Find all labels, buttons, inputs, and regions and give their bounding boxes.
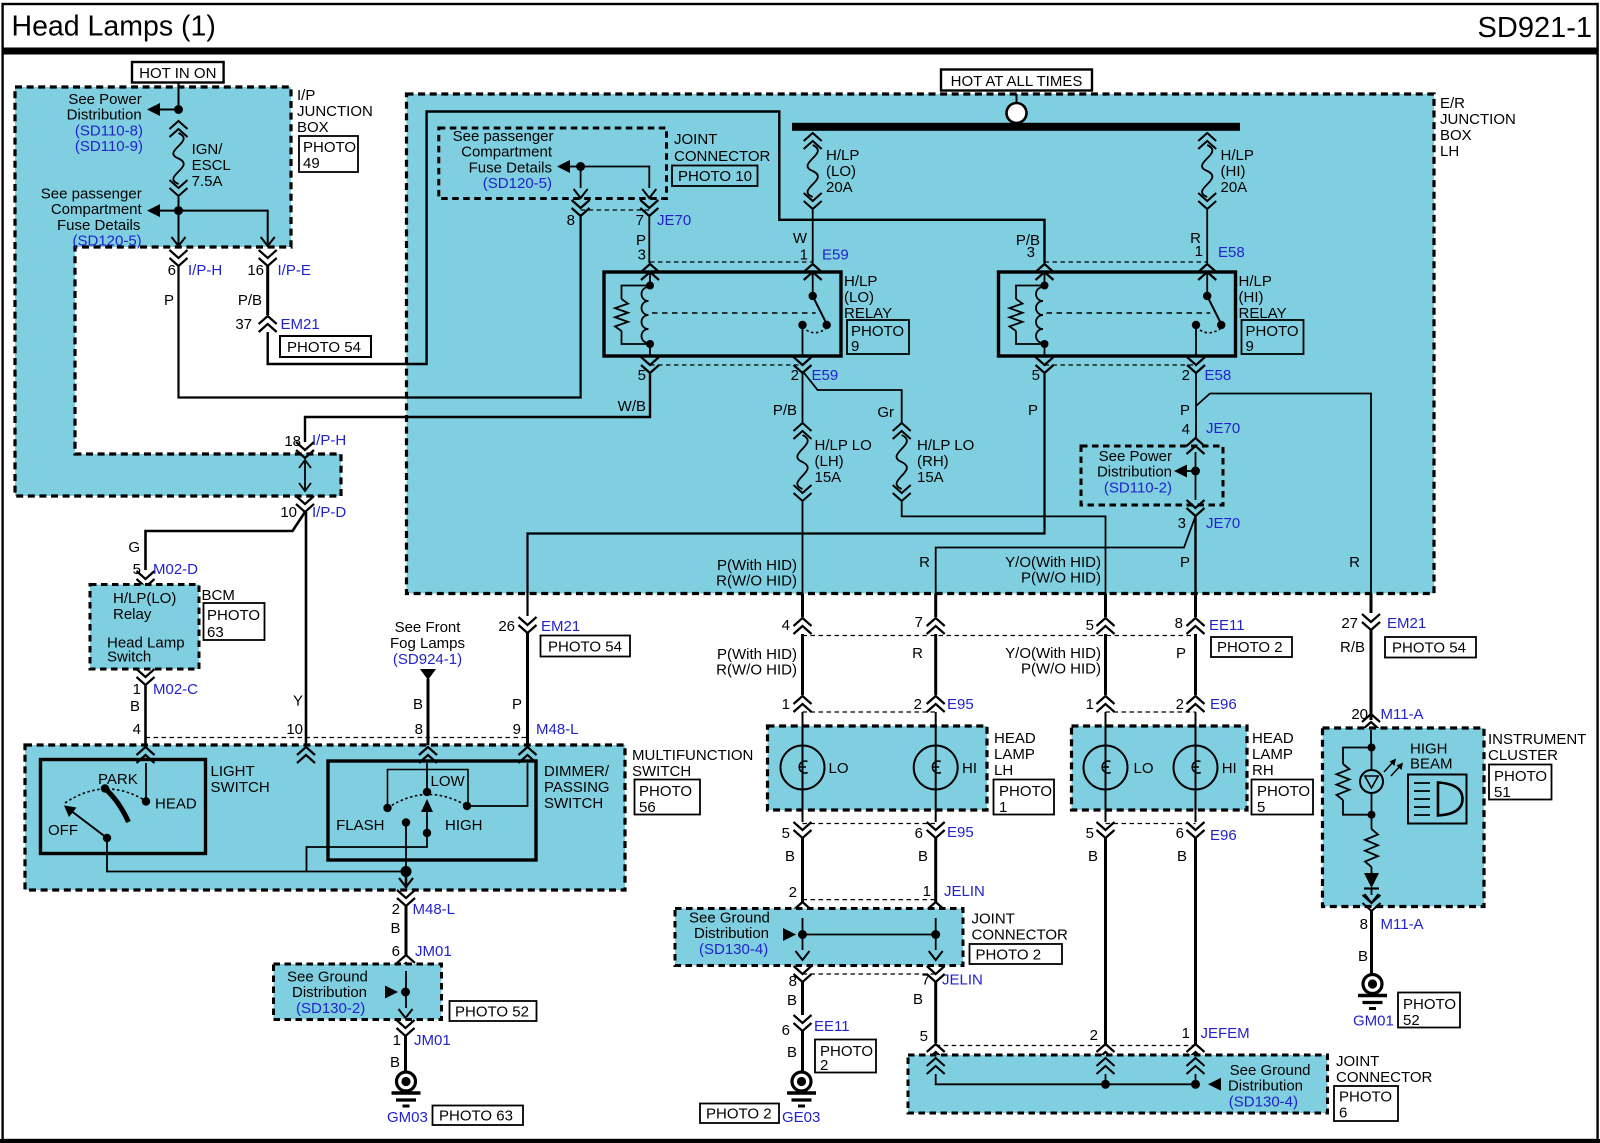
- I/P junction box region: [15, 87, 341, 496]
- svg-text:1: 1: [923, 883, 931, 900]
- svg-text:SWITCH: SWITCH: [544, 795, 603, 812]
- svg-text:SWITCH: SWITCH: [211, 779, 270, 796]
- svg-text:7: 7: [922, 972, 930, 989]
- fog lamp feed stub: [413, 669, 436, 745]
- svg-text:E58: E58: [1205, 367, 1232, 384]
- wire label W: [793, 230, 808, 247]
- wire EM21-37 to E58 coil pin 3: [268, 112, 1045, 365]
- wire OFF to junction: [107, 838, 406, 872]
- wire label P/B: [238, 292, 262, 309]
- wire node to I/P-E pin 16: [179, 211, 275, 246]
- svg-text:10: 10: [280, 504, 297, 521]
- cluster series resistor: [1365, 815, 1378, 873]
- wire through LO lamp RH: [1105, 712, 1107, 822]
- svg-text:H/LP LO: H/LP LO: [815, 437, 872, 454]
- svg-text:JUNCTION: JUNCTION: [1440, 111, 1516, 128]
- fuse H/LP (LO) 20A: [804, 133, 860, 209]
- wire JE70-7 to E59 pin 3: [636, 216, 649, 263]
- band pass-through arrow: [299, 460, 311, 491]
- cluster input wire: [1368, 730, 1376, 752]
- PHOTO 52 label box (GM01): [1398, 993, 1460, 1030]
- JOINT CONNECTOR label (JE70 top): [674, 131, 771, 165]
- svg-text:INSTRUMENT: INSTRUMENT: [1488, 731, 1586, 748]
- wire tap to pin 8: [580, 167, 582, 189]
- BCM box: [90, 585, 199, 670]
- svg-text:(SD110-8): (SD110-8): [75, 122, 143, 139]
- PHOTO 49 label box: [299, 136, 358, 172]
- svg-text:ESCL: ESCL: [192, 157, 231, 174]
- svg-text:BCM: BCM: [202, 587, 235, 604]
- svg-text:2: 2: [791, 367, 799, 384]
- svg-text:OFF: OFF: [48, 822, 78, 839]
- wire I/P-H 6 down to junction row: [179, 214, 581, 398]
- svg-text:6: 6: [392, 943, 400, 960]
- svg-text:(SD924-1): (SD924-1): [393, 651, 462, 668]
- connector JELIN pins 2 1: [789, 883, 985, 918]
- wire label R (cluster branch): [1349, 554, 1360, 571]
- svg-text:RH: RH: [1252, 762, 1274, 779]
- connector M02-D pin 5: [133, 561, 199, 587]
- wire R branch to instrument cluster: [1196, 394, 1371, 594]
- See passenger Compartment Fuse Details box (JE70): [439, 128, 667, 199]
- wires B below lamps: [785, 838, 1196, 1045]
- svg-text:JE70: JE70: [1206, 420, 1240, 437]
- JELIN exits: [796, 935, 943, 961]
- I/P JUNCTION BOX label: [297, 87, 373, 136]
- svg-text:B: B: [913, 991, 923, 1008]
- svg-text:P(W/O HID): P(W/O HID): [1021, 661, 1101, 678]
- svg-text:P: P: [1180, 554, 1190, 571]
- wire E58-5 P to dimmer pin 9: [528, 373, 1045, 616]
- connector M11-A pin 20: [1351, 706, 1423, 730]
- svg-text:16: 16: [247, 262, 264, 279]
- wire label R/B: [1340, 639, 1365, 656]
- ground GE03: [787, 1072, 816, 1106]
- LED arrows: [1384, 759, 1403, 777]
- stub to battery node: [1016, 94, 1018, 103]
- svg-text:M11-A: M11-A: [1381, 916, 1424, 933]
- svg-text:LH: LH: [994, 762, 1013, 779]
- svg-text:GM03: GM03: [387, 1109, 428, 1126]
- svg-text:63: 63: [207, 624, 224, 641]
- svg-text:JELIN: JELIN: [942, 972, 983, 989]
- wire B to GM03: [390, 1036, 406, 1072]
- lamp RH LO: [1084, 746, 1154, 790]
- HOT IN ON label: [132, 62, 224, 83]
- svg-text:EM21: EM21: [1387, 615, 1426, 632]
- wire P to dimmer pin 9: [512, 633, 528, 745]
- svg-text:2: 2: [1090, 1027, 1098, 1044]
- wire Y to light switch pin 10: [293, 512, 306, 745]
- svg-text:(HI): (HI): [1239, 289, 1264, 306]
- svg-text:5: 5: [782, 825, 790, 842]
- svg-text:PHOTO: PHOTO: [639, 783, 692, 800]
- svg-text:H/LP: H/LP: [844, 273, 877, 290]
- svg-text:5: 5: [1257, 799, 1265, 816]
- svg-text:See Ground: See Ground: [287, 969, 368, 986]
- svg-text:GE03: GE03: [782, 1109, 820, 1126]
- svg-text:EE11: EE11: [1209, 617, 1245, 634]
- svg-text:5: 5: [1086, 825, 1094, 842]
- connector EE11 pin 6: [782, 1015, 850, 1039]
- connector I/P-E pin 16: [247, 250, 311, 279]
- svg-text:B: B: [1088, 848, 1098, 865]
- svg-text:6: 6: [915, 825, 923, 842]
- high beam indicator LED: [1360, 748, 1383, 819]
- svg-text:Distribution: Distribution: [67, 107, 142, 124]
- svg-text:I/P-E: I/P-E: [278, 262, 311, 279]
- svg-text:PHOTO 2: PHOTO 2: [1217, 639, 1283, 656]
- PHOTO 63 label box (BCM): [204, 603, 265, 641]
- connector E95 pins 1 2: [782, 696, 974, 713]
- PHOTO 2 label box (EE11): [1211, 637, 1292, 657]
- svg-text:20A: 20A: [1221, 179, 1248, 196]
- svg-text:(HI): (HI): [1221, 163, 1246, 180]
- cluster diode: [1364, 873, 1379, 895]
- svg-text:(LO): (LO): [844, 289, 874, 306]
- svg-text:JE70: JE70: [1206, 515, 1240, 532]
- wire node to I/P-H pin 6: [172, 211, 186, 246]
- wire W/B E59-5 to I/P-H 18: [305, 373, 650, 442]
- svg-text:SWITCH: SWITCH: [632, 763, 691, 780]
- PHOTO 10 label box: [672, 166, 758, 187]
- connector JE70 pin 4: [1182, 420, 1241, 454]
- svg-text:M48-L: M48-L: [413, 901, 456, 918]
- connector I/P-H pin 18: [284, 432, 346, 458]
- svg-text:FLASH: FLASH: [336, 817, 384, 834]
- svg-text:PHOTO: PHOTO: [303, 139, 356, 156]
- wire B to GE03: [787, 1031, 803, 1072]
- svg-text:(RH): (RH): [917, 453, 949, 470]
- svg-text:BOX: BOX: [297, 119, 329, 136]
- node JE70 tap: [557, 160, 585, 173]
- See passenger Compartment Fuse Details label: [41, 186, 143, 250]
- See Ground Distribution SD130-2 text (JELIN): [689, 910, 770, 958]
- svg-text:See Power: See Power: [68, 91, 141, 108]
- svg-text:E58: E58: [1218, 244, 1245, 261]
- wire RH fuse to E96-1 column: [902, 502, 1106, 594]
- wire JE70-3 P down to EE11-8: [1180, 516, 1196, 594]
- GM03 label: [387, 1109, 428, 1126]
- svg-text:EM21: EM21: [281, 316, 320, 333]
- svg-text:PHOTO 54: PHOTO 54: [548, 639, 622, 656]
- svg-text:See passenger: See passenger: [453, 128, 554, 145]
- E/R JUNCTION BOX LH label: [1440, 95, 1516, 160]
- svg-text:9: 9: [513, 721, 521, 738]
- title separator bar: [3, 48, 1598, 55]
- svg-text:P/B: P/B: [773, 402, 797, 419]
- See Front Fog Lamps label: [390, 619, 465, 668]
- svg-text:7: 7: [915, 614, 923, 631]
- svg-text:BOX: BOX: [1440, 127, 1472, 144]
- wire fuse to E58 pin 1: [1206, 210, 1208, 263]
- wire B to light switch pin 4: [130, 685, 146, 745]
- HEAD LAMP RH label: [1252, 730, 1294, 779]
- PHOTO 56 label box: [635, 780, 701, 817]
- wire E58-2 to JE70-4: [1180, 373, 1196, 438]
- dimmer/passing switch box: [328, 761, 536, 860]
- svg-text:2: 2: [392, 901, 400, 918]
- head lamp RH box: [1072, 726, 1248, 810]
- svg-text:PHOTO 63: PHOTO 63: [439, 1108, 513, 1125]
- svg-text:2: 2: [789, 884, 797, 901]
- svg-text:2: 2: [1176, 696, 1184, 713]
- svg-text:BEAM: BEAM: [1410, 756, 1453, 773]
- fuse IGN/ESCL 7.5A: [170, 121, 231, 196]
- JM01 internal node: [385, 971, 413, 1018]
- svg-text:B: B: [787, 992, 797, 1009]
- wire labels P/B 3 (E58 coil): [1016, 232, 1040, 249]
- connector I/P-D pin 10: [280, 496, 346, 521]
- svg-text:See passenger: See passenger: [41, 186, 142, 203]
- svg-text:B: B: [413, 696, 423, 713]
- svg-text:2: 2: [820, 1057, 828, 1074]
- sheet number SD921-1: [1478, 12, 1592, 44]
- See Ground Distribution SD130-2 text: [287, 969, 368, 1017]
- JEFEM internal bus: [927, 1058, 1221, 1091]
- svg-text:37: 37: [235, 316, 252, 333]
- JOINT CONNECTOR label (JEFEM): [1336, 1053, 1433, 1086]
- BCM label: [202, 587, 235, 604]
- svg-text:PHOTO: PHOTO: [1339, 1089, 1392, 1106]
- connector E96 pins 1 2: [1086, 696, 1237, 713]
- svg-text:H/LP: H/LP: [1221, 147, 1254, 164]
- fuse H/LP LO (LH) 15A: [794, 423, 872, 501]
- connector row 4 7 5 8 EE11: [782, 594, 1245, 636]
- svg-text:27: 27: [1341, 615, 1358, 632]
- JELIN internal bus: [783, 918, 940, 941]
- svg-text:Fog Lamps: Fog Lamps: [390, 635, 465, 652]
- wire B to JM01: [390, 906, 406, 955]
- svg-text:9: 9: [851, 338, 859, 355]
- connector JM01 pin 1: [393, 1020, 451, 1049]
- svg-text:LOW: LOW: [431, 773, 466, 790]
- connector M48-L pin 2: [392, 890, 455, 918]
- svg-text:LO: LO: [829, 760, 849, 777]
- MULTIFUNCTION SWITCH label: [632, 747, 753, 780]
- wire FLASH to junction: [405, 823, 407, 872]
- svg-text:5: 5: [638, 367, 646, 384]
- wire through HI lamp LH: [935, 712, 937, 822]
- svg-text:(LO): (LO): [826, 163, 856, 180]
- svg-text:(SD120-5): (SD120-5): [483, 175, 552, 192]
- svg-text:P: P: [1028, 402, 1038, 419]
- svg-text:LH: LH: [1440, 143, 1459, 160]
- svg-text:9: 9: [1246, 338, 1254, 355]
- svg-text:(SD110-2): (SD110-2): [1104, 479, 1172, 496]
- svg-text:P: P: [1180, 402, 1190, 419]
- svg-text:49: 49: [303, 155, 320, 172]
- svg-text:15A: 15A: [815, 469, 842, 486]
- svg-text:56: 56: [639, 799, 656, 816]
- svg-text:Gr: Gr: [877, 404, 894, 421]
- svg-text:LO: LO: [1134, 760, 1154, 777]
- PHOTO 2 label box (EE11-6): [815, 1040, 876, 1075]
- wire fuse to E59 pin 1: [812, 210, 814, 263]
- fuse H/LP LO (RH) 15A: [893, 423, 975, 501]
- svg-text:Compartment: Compartment: [461, 144, 553, 161]
- svg-text:Y/O(With HID): Y/O(With HID): [1005, 554, 1101, 571]
- svg-text:E96: E96: [1210, 827, 1237, 844]
- svg-text:I/P: I/P: [297, 87, 315, 104]
- connector JM01 pin 6: [392, 943, 452, 971]
- svg-text:PHOTO: PHOTO: [1257, 783, 1310, 800]
- svg-text:HEAD: HEAD: [994, 730, 1036, 747]
- connector M11-A pin 8: [1360, 916, 1424, 933]
- svg-text:Fuse Details: Fuse Details: [469, 159, 552, 176]
- light switch contacts: [48, 771, 197, 842]
- wire pin 9 to HIGH: [467, 763, 528, 806]
- connector JE70 pin 3: [1178, 500, 1241, 532]
- dimmer contacts: [336, 763, 482, 837]
- svg-text:PHOTO 52: PHOTO 52: [455, 1004, 529, 1021]
- svg-text:PHOTO 54: PHOTO 54: [1392, 640, 1466, 657]
- svg-text:PHOTO: PHOTO: [207, 607, 260, 624]
- svg-text:JM01: JM01: [414, 1032, 451, 1049]
- svg-text:PHOTO 10: PHOTO 10: [678, 168, 752, 185]
- svg-text:CONNECTOR: CONNECTOR: [972, 927, 1069, 944]
- E/R junction box region: [407, 94, 1435, 594]
- svg-text:IGN/: IGN/: [192, 141, 224, 158]
- PHOTO 5 label box: [1252, 780, 1314, 817]
- connector E96 pins 5 6: [1086, 822, 1237, 844]
- svg-text:HOT IN ON: HOT IN ON: [139, 65, 216, 82]
- PHOTO 2 label box (GE03): [700, 1104, 779, 1124]
- svg-text:6: 6: [782, 1022, 790, 1039]
- See Ground Distribution SD130-4 text (JEFEM): [1228, 1062, 1311, 1110]
- svg-text:See Ground: See Ground: [689, 910, 770, 927]
- junction node to M48-L 2: [399, 866, 413, 888]
- svg-text:DIMMER/: DIMMER/: [544, 763, 610, 780]
- svg-text:JE70: JE70: [657, 212, 691, 229]
- svg-text:R: R: [1349, 554, 1360, 571]
- svg-text:H/LP: H/LP: [1239, 273, 1272, 290]
- svg-text:B: B: [785, 848, 795, 865]
- svg-text:1: 1: [1195, 243, 1203, 260]
- wire label R: [1190, 230, 1201, 247]
- node power distribution tap: [147, 103, 183, 116]
- svg-text:JEFEM: JEFEM: [1201, 1025, 1250, 1042]
- svg-text:R: R: [919, 554, 930, 571]
- svg-text:5: 5: [133, 561, 141, 578]
- svg-text:LIGHT: LIGHT: [211, 763, 255, 780]
- svg-text:P(With HID): P(With HID): [717, 646, 797, 663]
- svg-text:6: 6: [1176, 825, 1184, 842]
- svg-text:18: 18: [284, 433, 301, 450]
- svg-text:H/LP LO: H/LP LO: [917, 437, 974, 454]
- JELIN joint connector box: [675, 909, 963, 966]
- high beam icon: [1408, 775, 1467, 824]
- svg-text:(SD120-5): (SD120-5): [72, 233, 141, 250]
- svg-text:M11-A: M11-A: [1381, 706, 1424, 723]
- instrument cluster box: [1323, 728, 1485, 907]
- svg-text:Distribution: Distribution: [1228, 1078, 1303, 1095]
- svg-text:B: B: [1358, 948, 1368, 965]
- svg-text:52: 52: [1403, 1012, 1420, 1029]
- pin arrows into JE70: [574, 189, 657, 198]
- svg-text:JOINT: JOINT: [1336, 1053, 1379, 1070]
- wire JE70-3 branch to E95-2: [936, 516, 1196, 594]
- PHOTO 2 label box (JELIN): [970, 944, 1063, 964]
- svg-text:E/R: E/R: [1440, 95, 1465, 112]
- svg-text:HI: HI: [1222, 760, 1237, 777]
- svg-text:E59: E59: [812, 367, 839, 384]
- svg-text:See Power: See Power: [1099, 448, 1172, 465]
- svg-text:PHOTO: PHOTO: [999, 783, 1052, 800]
- svg-text:PHOTO 54: PHOTO 54: [287, 339, 361, 356]
- svg-text:B: B: [390, 1054, 400, 1071]
- svg-text:See Ground: See Ground: [1230, 1062, 1311, 1079]
- svg-text:E95: E95: [947, 824, 974, 841]
- svg-text:5: 5: [920, 1028, 928, 1045]
- svg-text:I/P-H: I/P-H: [312, 432, 346, 449]
- svg-text:P: P: [512, 696, 522, 713]
- svg-text:(SD130-4): (SD130-4): [1229, 1093, 1298, 1110]
- connector M02-C pin 1: [133, 669, 199, 698]
- svg-text:15A: 15A: [917, 469, 944, 486]
- multifunction switch region: [25, 745, 625, 890]
- svg-text:8: 8: [789, 973, 797, 990]
- svg-text:W: W: [793, 230, 808, 247]
- connector EM21 pin 26: [498, 617, 580, 635]
- PHOTO 51 label box: [1489, 765, 1552, 802]
- ground GM01: [1358, 975, 1387, 1009]
- svg-text:6: 6: [168, 262, 176, 279]
- svg-text:M48-L: M48-L: [536, 721, 579, 738]
- svg-text:2: 2: [1182, 367, 1190, 384]
- svg-text:M02-C: M02-C: [153, 681, 198, 698]
- svg-text:CONNECTOR: CONNECTOR: [1336, 1069, 1433, 1086]
- wires B below JELIN: [787, 982, 936, 1043]
- svg-text:P/B: P/B: [1016, 232, 1040, 249]
- svg-text:4: 4: [782, 617, 790, 634]
- svg-text:Switch: Switch: [107, 649, 151, 666]
- wire LH fuse down to connector 4: [802, 502, 804, 594]
- svg-text:Y/O(With HID): Y/O(With HID): [1005, 645, 1101, 662]
- svg-text:7: 7: [636, 212, 644, 229]
- svg-text:W/B: W/B: [618, 398, 646, 415]
- wire G to BCM M02-D: [128, 512, 305, 570]
- svg-text:(SD110-9): (SD110-9): [75, 138, 143, 155]
- JM01 joint connector box: [274, 964, 442, 1020]
- svg-text:G: G: [128, 539, 140, 556]
- svg-text:PHOTO: PHOTO: [1403, 996, 1456, 1013]
- BCM internal text: [107, 590, 185, 666]
- svg-text:Distribution: Distribution: [694, 925, 769, 942]
- wire labels Y/O P (E96-1): [1005, 554, 1101, 587]
- svg-text:8: 8: [1360, 916, 1368, 933]
- lower wire labels below connector row: [716, 645, 1186, 679]
- svg-text:1: 1: [133, 681, 141, 698]
- ground GM03: [392, 1072, 421, 1106]
- JOINT CONNECTOR label (JELIN): [972, 911, 1069, 944]
- wire HEAD to pin 4: [145, 763, 147, 802]
- svg-text:JOINT: JOINT: [972, 911, 1015, 928]
- svg-text:8: 8: [567, 212, 575, 229]
- svg-text:P: P: [1176, 645, 1186, 662]
- svg-text:(SD130-2): (SD130-2): [296, 1000, 365, 1017]
- node JE70-4/3 tap: [1174, 452, 1200, 500]
- svg-text:R(W/O HID): R(W/O HID): [716, 662, 797, 679]
- svg-text:8: 8: [415, 721, 423, 738]
- HIGH BEAM label: [1410, 741, 1453, 773]
- title Head Lamps (1): [12, 11, 216, 43]
- lamp LH HI: [914, 746, 977, 790]
- svg-text:HIGH: HIGH: [445, 817, 483, 834]
- svg-text:(SD130-4): (SD130-4): [699, 941, 768, 958]
- svg-text:4: 4: [1182, 421, 1190, 438]
- connector I/P-H pin 6: [168, 250, 223, 279]
